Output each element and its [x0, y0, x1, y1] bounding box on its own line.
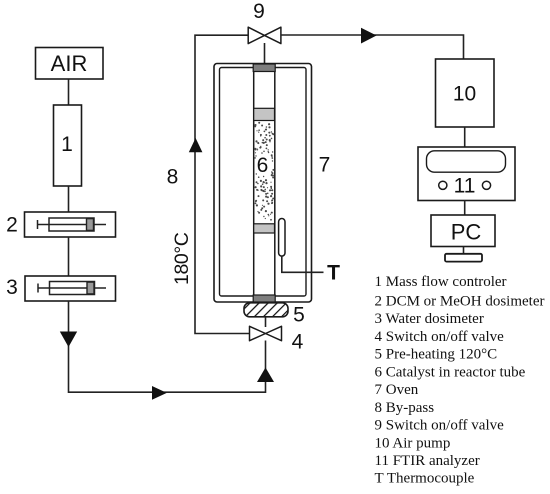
- arrow right on bottom wire: [152, 386, 167, 400]
- riser wire to valve 4: [265, 341, 267, 394]
- svg-text:10 Air pump: 10 Air pump: [375, 435, 451, 451]
- PC box: [431, 215, 495, 247]
- svg-text:9: 9: [253, 0, 265, 23]
- bypass wire 8 vertical: [195, 35, 250, 333]
- upper packing band: [254, 108, 275, 120]
- svg-text:3: 3: [6, 276, 18, 299]
- svg-text:10: 10: [453, 83, 476, 106]
- svg-text:5 Pre-heating 120°C: 5 Pre-heating 120°C: [375, 347, 498, 363]
- wire 1 to 2: [68, 186, 70, 212]
- tube bottom stopper band: [253, 295, 275, 302]
- catalyst stipple region 6: [254, 122, 274, 221]
- svg-text:7 Oven: 7 Oven: [375, 382, 419, 398]
- svg-text:PC: PC: [451, 220, 482, 245]
- svg-text:180°C: 180°C: [171, 232, 193, 285]
- svg-text:T Thermocouple: T Thermocouple: [375, 471, 475, 487]
- wire 2 to 3: [68, 237, 70, 276]
- air pump box 10: [436, 59, 495, 127]
- wire preheater to valve 4: [265, 317, 267, 327]
- AIR source box: [36, 48, 104, 80]
- switch valve 4: [250, 326, 282, 340]
- wire 11 to PC: [464, 200, 466, 215]
- mass flow controller box 1: [54, 105, 82, 186]
- svg-text:AIR: AIR: [51, 51, 88, 76]
- arrow right to pump: [361, 28, 377, 44]
- wire AIR to 1: [68, 79, 70, 105]
- svg-text:6: 6: [257, 154, 269, 177]
- FTIR analyzer box 11: [418, 147, 515, 201]
- svg-text:4 Switch on/off valve: 4 Switch on/off valve: [375, 329, 505, 345]
- DCM/MeOH dosimeter box 2: [25, 212, 116, 237]
- tube top stopper band: [253, 64, 275, 72]
- svg-text:4: 4: [292, 331, 304, 354]
- thermocouple capsule: [279, 219, 285, 257]
- reactor tube body: [254, 64, 276, 302]
- arrow down on feed line: [60, 332, 77, 348]
- switch valve 9: [248, 27, 281, 43]
- water dosimeter box 3: [25, 276, 116, 301]
- pre-heater 5 hatched: [244, 303, 288, 317]
- arrow up on riser: [257, 368, 274, 383]
- svg-text:8 By-pass: 8 By-pass: [375, 400, 435, 416]
- svg-text:T: T: [327, 262, 340, 285]
- svg-text:5: 5: [293, 304, 305, 327]
- wire valve 9 to air pump 10: [281, 35, 464, 59]
- catalyst bottom line / lower packing band: [254, 224, 275, 233]
- svg-text:1: 1: [61, 133, 73, 156]
- svg-text:11 FTIR analyzer: 11 FTIR analyzer: [375, 453, 480, 469]
- svg-text:9 Switch on/off valve: 9 Switch on/off valve: [375, 418, 505, 434]
- svg-text:2: 2: [6, 214, 18, 237]
- svg-text:1 Mass flow controler: 1 Mass flow controler: [375, 274, 507, 290]
- arrow up on bypass: [189, 138, 203, 152]
- keyboard: [445, 254, 482, 262]
- svg-text:2 DCM or MeOH dosimeter: 2 DCM or MeOH dosimeter: [375, 294, 545, 310]
- thermocouple lead wire: [282, 256, 324, 272]
- svg-text:11: 11: [454, 175, 476, 198]
- svg-text:3 Water dosimeter: 3 Water dosimeter: [375, 311, 484, 327]
- wire PC to keyboard: [463, 247, 465, 255]
- svg-text:7: 7: [319, 154, 331, 177]
- bottom manifold wire: [69, 391, 266, 393]
- wire 3 down to bottom manifold: [68, 301, 70, 393]
- oven 7 inner wall: [220, 68, 307, 297]
- svg-text:6 Catalyst in reactor tube: 6 Catalyst in reactor tube: [375, 364, 526, 380]
- oven 7 outer wall: [214, 64, 312, 303]
- wire valve 9 down to reactor: [264, 43, 266, 65]
- wire 10 to 11: [464, 127, 466, 147]
- svg-text:8: 8: [167, 166, 179, 189]
